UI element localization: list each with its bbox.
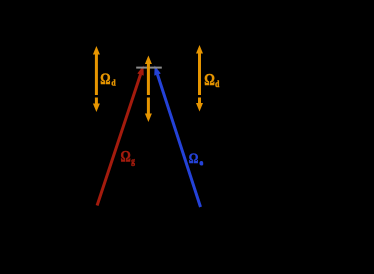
- right dressing double arrow Omega_d: [196, 45, 203, 112]
- svg-text:Ω: Ω: [100, 71, 110, 89]
- svg-text:Ω: Ω: [189, 150, 199, 167]
- svg-text:e: e: [200, 159, 203, 167]
- virtual level (gray line): [136, 67, 162, 69]
- Stokes arrow Omega_e (blue, from right ground level up to virtual level): [154, 66, 200, 208]
- svg-text:Ω: Ω: [204, 72, 215, 90]
- left dressing double arrow Omega_d: [93, 46, 100, 112]
- central detuning double arrow (orange, through virtual level): [145, 56, 152, 123]
- svg-text:d: d: [215, 79, 220, 89]
- pump arrow Omega_g (dark red, from left ground level up to virtual level): [97, 66, 144, 206]
- svg-text:Ω: Ω: [121, 148, 131, 166]
- svg-text:d: d: [111, 78, 116, 87]
